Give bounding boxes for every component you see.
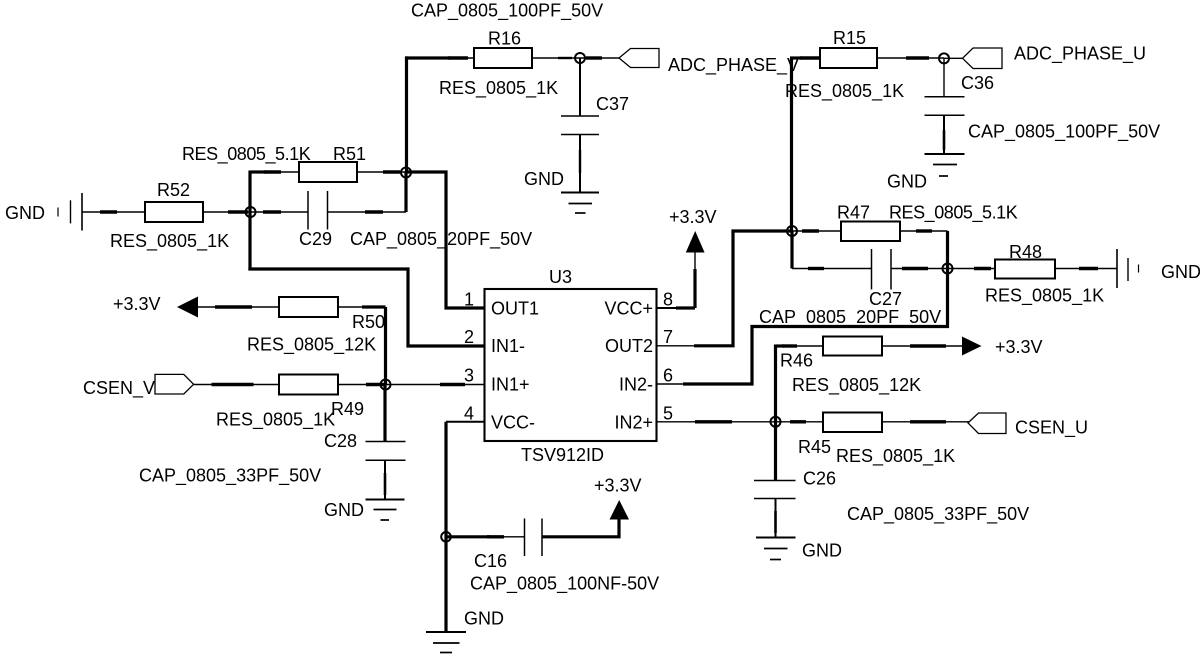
- junction J4: [939, 53, 949, 63]
- pin dash pin3: [440, 383, 465, 386]
- wire pin 4 stub: [446, 421, 484, 423]
- pin dash R49 right: [366, 383, 384, 386]
- pin dash R45 right: [910, 420, 946, 423]
- wire C37 to ground: [579, 135, 581, 193]
- svg-text:RES_0805_12K: RES_0805_12K: [247, 335, 376, 356]
- wire R48 to ground: [1055, 268, 1117, 270]
- ground GND (left, at R52 input): [58, 193, 82, 231]
- ground (C26): [756, 538, 796, 560]
- wire pin8 vertical to +3.3V: [694, 251, 696, 271]
- svg-text:3: 3: [464, 366, 474, 386]
- pin dash R46 left: [782, 344, 797, 347]
- pin dash R48 right: [1079, 267, 1098, 270]
- wire arrow to R50: [198, 306, 279, 308]
- svg-text:RES_0805_5.1K: RES_0805_5.1K: [182, 144, 311, 165]
- svg-text:GND: GND: [1161, 262, 1200, 282]
- svg-text:R49: R49: [331, 399, 364, 419]
- svg-text:6: 6: [663, 366, 673, 386]
- port flag ADC_PHASE_U: [963, 48, 1003, 69]
- pin dash R51 left: [264, 170, 281, 173]
- wire R47 to corner: [900, 230, 948, 232]
- svg-text:C26: C26: [803, 469, 836, 489]
- pin dash C27 left: [808, 267, 824, 270]
- capacitor C29: [308, 191, 328, 230]
- pin dash R47 right: [916, 229, 932, 232]
- junction J9 (VCC- / C16): [441, 532, 451, 542]
- svg-text:CAP_0805_33PF_50V: CAP_0805_33PF_50V: [139, 466, 321, 487]
- wire to C27: [792, 268, 872, 270]
- pin dash R52 left: [100, 210, 117, 213]
- wire J4 to flag: [944, 57, 963, 59]
- wire pin4 vertical down: [444, 422, 447, 631]
- svg-text:C16: C16: [474, 551, 507, 571]
- svg-text:C28: C28: [324, 431, 357, 451]
- wire pin 8 stub: [656, 307, 678, 309]
- resistor R51: [299, 162, 357, 182]
- svg-text:RES_0805_1K: RES_0805_1K: [216, 410, 335, 431]
- svg-text:ADC_PHASE_V: ADC_PHASE_V: [668, 55, 799, 76]
- wire GND to R52: [82, 211, 145, 213]
- pin dash R51 right: [383, 170, 400, 173]
- svg-text:GND: GND: [324, 500, 364, 520]
- power +3.3V arrow (left): [177, 297, 198, 318]
- resistor R15: [820, 48, 877, 68]
- wire R49 to J7: [338, 384, 385, 386]
- svg-text:8: 8: [663, 290, 673, 310]
- svg-text:R46: R46: [780, 351, 813, 371]
- pin dash R50 left: [215, 305, 252, 308]
- wire top to R51: [250, 170, 266, 173]
- wire to R16: [405, 56, 450, 59]
- pin dash R46 right: [910, 344, 946, 347]
- pin dash C29 left: [263, 210, 281, 213]
- svg-text:CAP_0805_100PF_50V: CAP_0805_100PF_50V: [411, 1, 603, 22]
- svg-text:VCC-: VCC-: [491, 413, 535, 433]
- pin dash R45 left: [790, 420, 806, 423]
- svg-text:1: 1: [464, 290, 474, 310]
- wire R16 to J3: [532, 57, 580, 59]
- capacitor C36: [943, 58, 945, 96]
- svg-text:+3.3V: +3.3V: [113, 294, 161, 314]
- wire C28 to ground: [384, 460, 386, 499]
- wire R15 vertical (ADC net down to J5): [790, 58, 793, 231]
- svg-text:RES_0805_5.1K: RES_0805_5.1K: [889, 203, 1018, 224]
- resistor R49: [279, 375, 338, 395]
- wire J5 to R47: [792, 230, 841, 232]
- wire R16 vertical (J2 up): [405, 56, 408, 172]
- svg-text:+3.3V: +3.3V: [669, 207, 717, 227]
- svg-text:GND: GND: [464, 609, 504, 629]
- resistor R48: [995, 260, 1055, 279]
- wire R15 to J4: [877, 57, 944, 59]
- wire R45 to flag: [882, 421, 969, 423]
- svg-text:4: 4: [464, 404, 474, 424]
- svg-text:RES_0805_12K: RES_0805_12K: [792, 375, 921, 396]
- junction J6: [943, 264, 953, 274]
- port flag CSEN_V: [155, 374, 194, 394]
- pin dash R49 left: [212, 383, 254, 386]
- junction J5: [787, 226, 797, 236]
- wire R52 to node J1: [203, 211, 250, 213]
- pin dash C29 right: [365, 210, 383, 213]
- resistor R52: [145, 202, 203, 222]
- svg-text:CAP_0805_20PF_50V: CAP_0805_20PF_50V: [759, 307, 941, 328]
- svg-text:IN2+: IN2+: [614, 413, 653, 433]
- wire C16 to +3.3V arrow: [542, 519, 619, 537]
- svg-text:OUT1: OUT1: [491, 299, 539, 319]
- svg-text:CSEN_V: CSEN_V: [83, 378, 155, 399]
- wire R46 to arrow: [882, 345, 962, 347]
- svg-text:+3.3V: +3.3V: [594, 476, 642, 496]
- wire C26 to ground: [775, 499, 777, 538]
- svg-text:R50: R50: [352, 312, 385, 332]
- wire J5 down to C27: [790, 231, 793, 269]
- svg-text:VCC+: VCC+: [604, 299, 653, 319]
- svg-text:R45: R45: [798, 437, 831, 457]
- svg-text:2: 2: [464, 327, 474, 347]
- pin dash C16 left: [487, 535, 504, 538]
- pin dash R16 right: [558, 57, 572, 59]
- resistor R45: [823, 413, 882, 433]
- junction J1: [246, 207, 256, 217]
- svg-text:R52: R52: [157, 180, 190, 200]
- svg-text:7: 7: [663, 327, 673, 347]
- port flag CSEN_U: [968, 413, 1006, 434]
- svg-text:GND: GND: [802, 541, 842, 561]
- wire R51 to J2: [357, 171, 406, 173]
- svg-text:RES_0805_1K: RES_0805_1K: [985, 286, 1104, 307]
- svg-text:IN1-: IN1-: [491, 336, 525, 356]
- pin dash R47 left: [802, 229, 819, 232]
- op-amp U3 body: [485, 289, 657, 441]
- svg-text:RES_0805_1K: RES_0805_1K: [836, 446, 955, 467]
- wire J2 to pin1 route: [406, 172, 484, 308]
- svg-text:RES_0805_1K: RES_0805_1K: [785, 81, 904, 102]
- wire J6 to R48: [948, 268, 996, 270]
- wire R46 vertical to J8: [774, 345, 777, 422]
- svg-text:IN1+: IN1+: [491, 375, 530, 395]
- capacitor C37: [579, 58, 581, 116]
- ground (C16 net): [426, 632, 466, 653]
- junction J3: [575, 53, 585, 63]
- svg-text:U3: U3: [549, 267, 572, 287]
- svg-text:TSV912ID: TSV912ID: [521, 445, 604, 465]
- wire C29 to vertical: [328, 211, 407, 213]
- wire pin7 route to J5: [694, 231, 792, 346]
- pin dash pin5: [695, 420, 732, 423]
- svg-text:R16: R16: [488, 29, 521, 49]
- pin dash R16 left: [448, 56, 468, 59]
- svg-text:C37: C37: [596, 94, 629, 114]
- wire vertical R50 down to J7: [384, 307, 387, 385]
- capacitor C16: [525, 519, 543, 557]
- svg-text:R47: R47: [837, 203, 870, 223]
- svg-text:RES_0805_1K: RES_0805_1K: [439, 78, 558, 99]
- wire pin 5 stub: [656, 421, 776, 423]
- resistor R46: [823, 337, 882, 356]
- capacitor C26: [774, 422, 777, 481]
- wire corner to R46: [776, 344, 785, 347]
- power +3.3V arrow (C16): [610, 500, 630, 520]
- svg-text:CAP_0805_100NF-50V: CAP_0805_100NF-50V: [470, 574, 659, 595]
- wire J8 to R45: [776, 421, 824, 423]
- ground (C28): [366, 500, 405, 521]
- wire bottom of bus to pin2 route: [248, 269, 484, 346]
- wire J7 to pin 3: [386, 384, 485, 386]
- wire C36 to ground: [943, 115, 945, 153]
- svg-text:C29: C29: [299, 229, 332, 249]
- svg-text:5: 5: [663, 404, 673, 424]
- wire vertical bus at x=250: [248, 171, 251, 271]
- resistor R16: [474, 48, 532, 68]
- ground GND (right, at R48): [1117, 249, 1139, 288]
- svg-text:OUT2: OUT2: [605, 336, 653, 356]
- svg-text:C36: C36: [961, 73, 994, 93]
- pin dash R52 right: [228, 210, 248, 213]
- svg-text:+3.3V: +3.3V: [995, 337, 1043, 357]
- wire to R15: [790, 56, 802, 59]
- svg-text:GND: GND: [524, 169, 564, 189]
- junction J2: [401, 168, 411, 178]
- svg-text:CAP_0805_20PF_50V: CAP_0805_20PF_50V: [350, 229, 532, 250]
- pin dash C27 right: [902, 267, 928, 270]
- resistor R47: [841, 222, 900, 242]
- svg-text:GND: GND: [5, 203, 45, 223]
- svg-text:R48: R48: [1009, 242, 1042, 262]
- port flag ADC_PHASE_V: [619, 49, 659, 68]
- wire J9 to C16: [446, 535, 490, 538]
- svg-text:CAP_0805_33PF_50V: CAP_0805_33PF_50V: [847, 504, 1029, 525]
- wire pin 6 stub: [656, 383, 685, 385]
- capacitor C27: [872, 249, 892, 290]
- wire flag to R49: [194, 384, 280, 386]
- capacitor C28: [383, 385, 386, 442]
- ground (C36): [925, 154, 965, 176]
- wire R50 to corner: [338, 306, 364, 308]
- power +3.3V arrow (pin 8): [686, 231, 705, 253]
- pin dash R15 left: [800, 56, 819, 59]
- wire pin 7 stub: [656, 345, 696, 347]
- resistor R50: [279, 297, 338, 317]
- svg-text:C27: C27: [869, 289, 902, 309]
- wire pin6 route to J6: [683, 269, 948, 385]
- svg-text:CSEN_U: CSEN_U: [1015, 418, 1088, 439]
- pin dash R48 left: [974, 267, 991, 270]
- svg-text:RES_0805_1K: RES_0805_1K: [110, 231, 229, 252]
- junction J7: [381, 380, 391, 390]
- svg-text:R15: R15: [833, 28, 866, 48]
- wire J3 to flag: [580, 57, 620, 59]
- wire C29 right vertical up to J2: [404, 172, 407, 212]
- svg-text:IN2-: IN2-: [619, 375, 653, 395]
- wire J1 to C29: [251, 211, 308, 213]
- svg-text:GND: GND: [887, 172, 927, 192]
- wire C27 to J6: [891, 268, 948, 270]
- junction J8: [771, 417, 781, 427]
- svg-text:ADC_PHASE_U: ADC_PHASE_U: [1014, 44, 1146, 65]
- ground (C37): [561, 193, 599, 214]
- svg-text:R51: R51: [333, 144, 366, 164]
- power +3.3V arrow (R46, pointing right): [962, 337, 982, 356]
- pin dash R15 right: [906, 56, 929, 59]
- wire R47 right vertical down to J6: [946, 231, 949, 269]
- svg-text:CAP_0805_100PF_50V: CAP_0805_100PF_50V: [968, 122, 1160, 143]
